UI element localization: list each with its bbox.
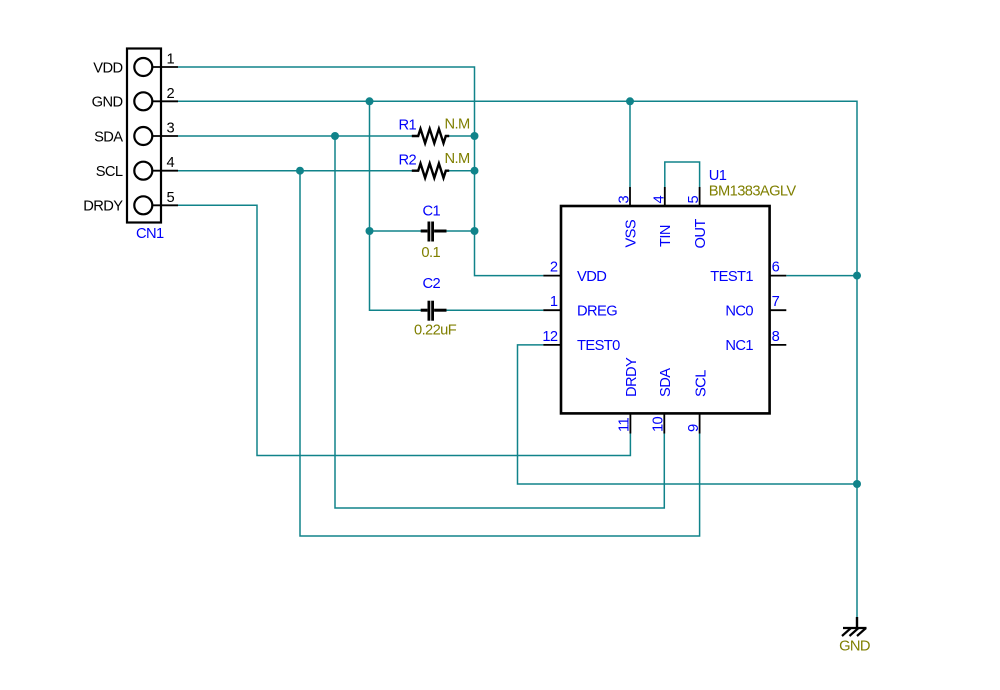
CN1 pin 3 circle — [134, 127, 152, 145]
svg-text:BM1383AGLV: BM1383AGLV — [709, 184, 797, 200]
wire VSS branch — [629, 101, 631, 187]
svg-text:5: 5 — [167, 190, 175, 206]
svg-text:NC0: NC0 — [725, 304, 753, 320]
resistor R1 — [412, 129, 449, 143]
wire C1 right — [446, 230, 474, 232]
svg-text:GND: GND — [92, 95, 123, 111]
resistor R2 — [412, 164, 449, 178]
svg-text:NC1: NC1 — [725, 338, 753, 354]
svg-text:SCL: SCL — [96, 164, 123, 180]
svg-text:1: 1 — [550, 294, 558, 310]
svg-text:VDD: VDD — [93, 60, 122, 76]
svg-text:4: 4 — [167, 155, 175, 171]
junction GND-VSS — [626, 97, 634, 105]
CN1 pin 1 lead — [152, 66, 178, 68]
svg-text:DREG: DREG — [577, 304, 617, 320]
svg-text:TEST1: TEST1 — [710, 269, 753, 285]
wire GND row — [178, 101, 857, 617]
svg-text:4: 4 — [651, 196, 667, 204]
U1 pin 7 stub — [770, 309, 787, 311]
svg-text:C2: C2 — [423, 276, 441, 292]
CN1 pin 1 circle — [134, 58, 152, 76]
junction C1 right — [471, 227, 479, 235]
U1 pin 5 stub — [699, 187, 701, 206]
svg-text:VDD: VDD — [577, 269, 606, 285]
svg-text:8: 8 — [772, 329, 780, 345]
svg-text:3: 3 — [167, 121, 175, 137]
junction R1 right — [471, 132, 479, 140]
wire TEST1 — [786, 275, 857, 277]
svg-text:R2: R2 — [399, 152, 417, 168]
U1 pin 9 stub — [699, 413, 701, 433]
wire TIN-OUT bracket — [665, 162, 700, 187]
wire DRDY net — [178, 205, 630, 455]
svg-text:CN1: CN1 — [136, 226, 164, 242]
svg-text:10: 10 — [651, 416, 667, 432]
wire SDA row — [178, 135, 412, 137]
svg-text:VSS: VSS — [623, 219, 639, 247]
junction R2 right — [471, 167, 479, 175]
svg-text:11: 11 — [617, 418, 633, 432]
wire R1 right — [449, 135, 475, 137]
IC U1 body — [561, 206, 770, 413]
wire C1 left — [370, 230, 422, 232]
svg-text:OUT: OUT — [693, 219, 709, 249]
junction C1 left — [366, 227, 374, 235]
junction TEST0 rail — [853, 480, 861, 488]
svg-text:C1: C1 — [423, 203, 441, 219]
U1 pin 10 stub — [663, 413, 665, 433]
svg-text:5: 5 — [686, 196, 702, 204]
svg-text:2: 2 — [167, 86, 175, 102]
svg-text:TIN: TIN — [658, 225, 674, 247]
U1 pin 12 stub — [543, 344, 561, 346]
wire SCL row — [178, 170, 412, 172]
svg-text:SDA: SDA — [94, 129, 123, 145]
U1 pin 1 stub — [543, 309, 561, 311]
U1 pin 8 stub — [770, 344, 787, 346]
svg-text:9: 9 — [686, 424, 702, 432]
CN1 pin 2 circle — [134, 92, 152, 110]
U1 pin 2 stub — [543, 275, 561, 277]
CN1 pin 5 circle — [134, 196, 152, 214]
svg-text:U1: U1 — [709, 168, 727, 184]
svg-text:SCL: SCL — [693, 370, 709, 397]
svg-text:7: 7 — [772, 294, 780, 310]
svg-text:SDA: SDA — [658, 368, 674, 397]
U1 pin 11 stub — [629, 413, 631, 433]
CN1 pin 3 lead — [152, 135, 178, 137]
svg-text:1: 1 — [167, 52, 175, 68]
CN1 pin 5 lead — [152, 204, 178, 206]
capacitor C2 — [421, 301, 447, 321]
U1 pin 6 stub — [770, 275, 787, 277]
wire C2 right to DREG — [446, 309, 543, 311]
capacitor C1 — [421, 222, 447, 242]
svg-text:0.22uF: 0.22uF — [414, 323, 457, 339]
junction GND-capbranch — [366, 97, 374, 105]
CN1 pin 4 circle — [134, 162, 152, 180]
svg-text:DRDY: DRDY — [83, 199, 123, 215]
wire R2 right — [449, 170, 475, 172]
wire SCL net — [300, 171, 700, 536]
connector CN1 body — [127, 49, 161, 223]
svg-text:12: 12 — [542, 329, 558, 345]
svg-text:R1: R1 — [399, 118, 417, 134]
svg-text:0.1: 0.1 — [421, 245, 440, 261]
CN1 pin 2 lead — [152, 100, 178, 102]
U1 pin 3 stub — [629, 187, 631, 206]
junction SCL vertical — [296, 167, 304, 175]
svg-text:N.M: N.M — [445, 151, 470, 167]
svg-text:6: 6 — [772, 260, 780, 276]
wire TEST0 net — [518, 345, 858, 484]
svg-text:TEST0: TEST0 — [577, 338, 620, 354]
svg-text:2: 2 — [550, 260, 558, 276]
junction SDA vertical — [331, 132, 339, 140]
wire cap branch — [370, 101, 422, 310]
svg-text:GND: GND — [839, 639, 870, 655]
wire SDA net — [335, 136, 664, 508]
svg-text:DRDY: DRDY — [624, 357, 640, 397]
wire VDD row — [178, 67, 543, 276]
svg-text:N.M: N.M — [445, 117, 470, 133]
U1 pin 4 stub — [664, 187, 666, 206]
junction TEST1 rail — [853, 272, 861, 280]
CN1 pin 4 lead — [152, 170, 178, 172]
ground symbol — [842, 617, 867, 636]
svg-text:3: 3 — [617, 196, 633, 204]
